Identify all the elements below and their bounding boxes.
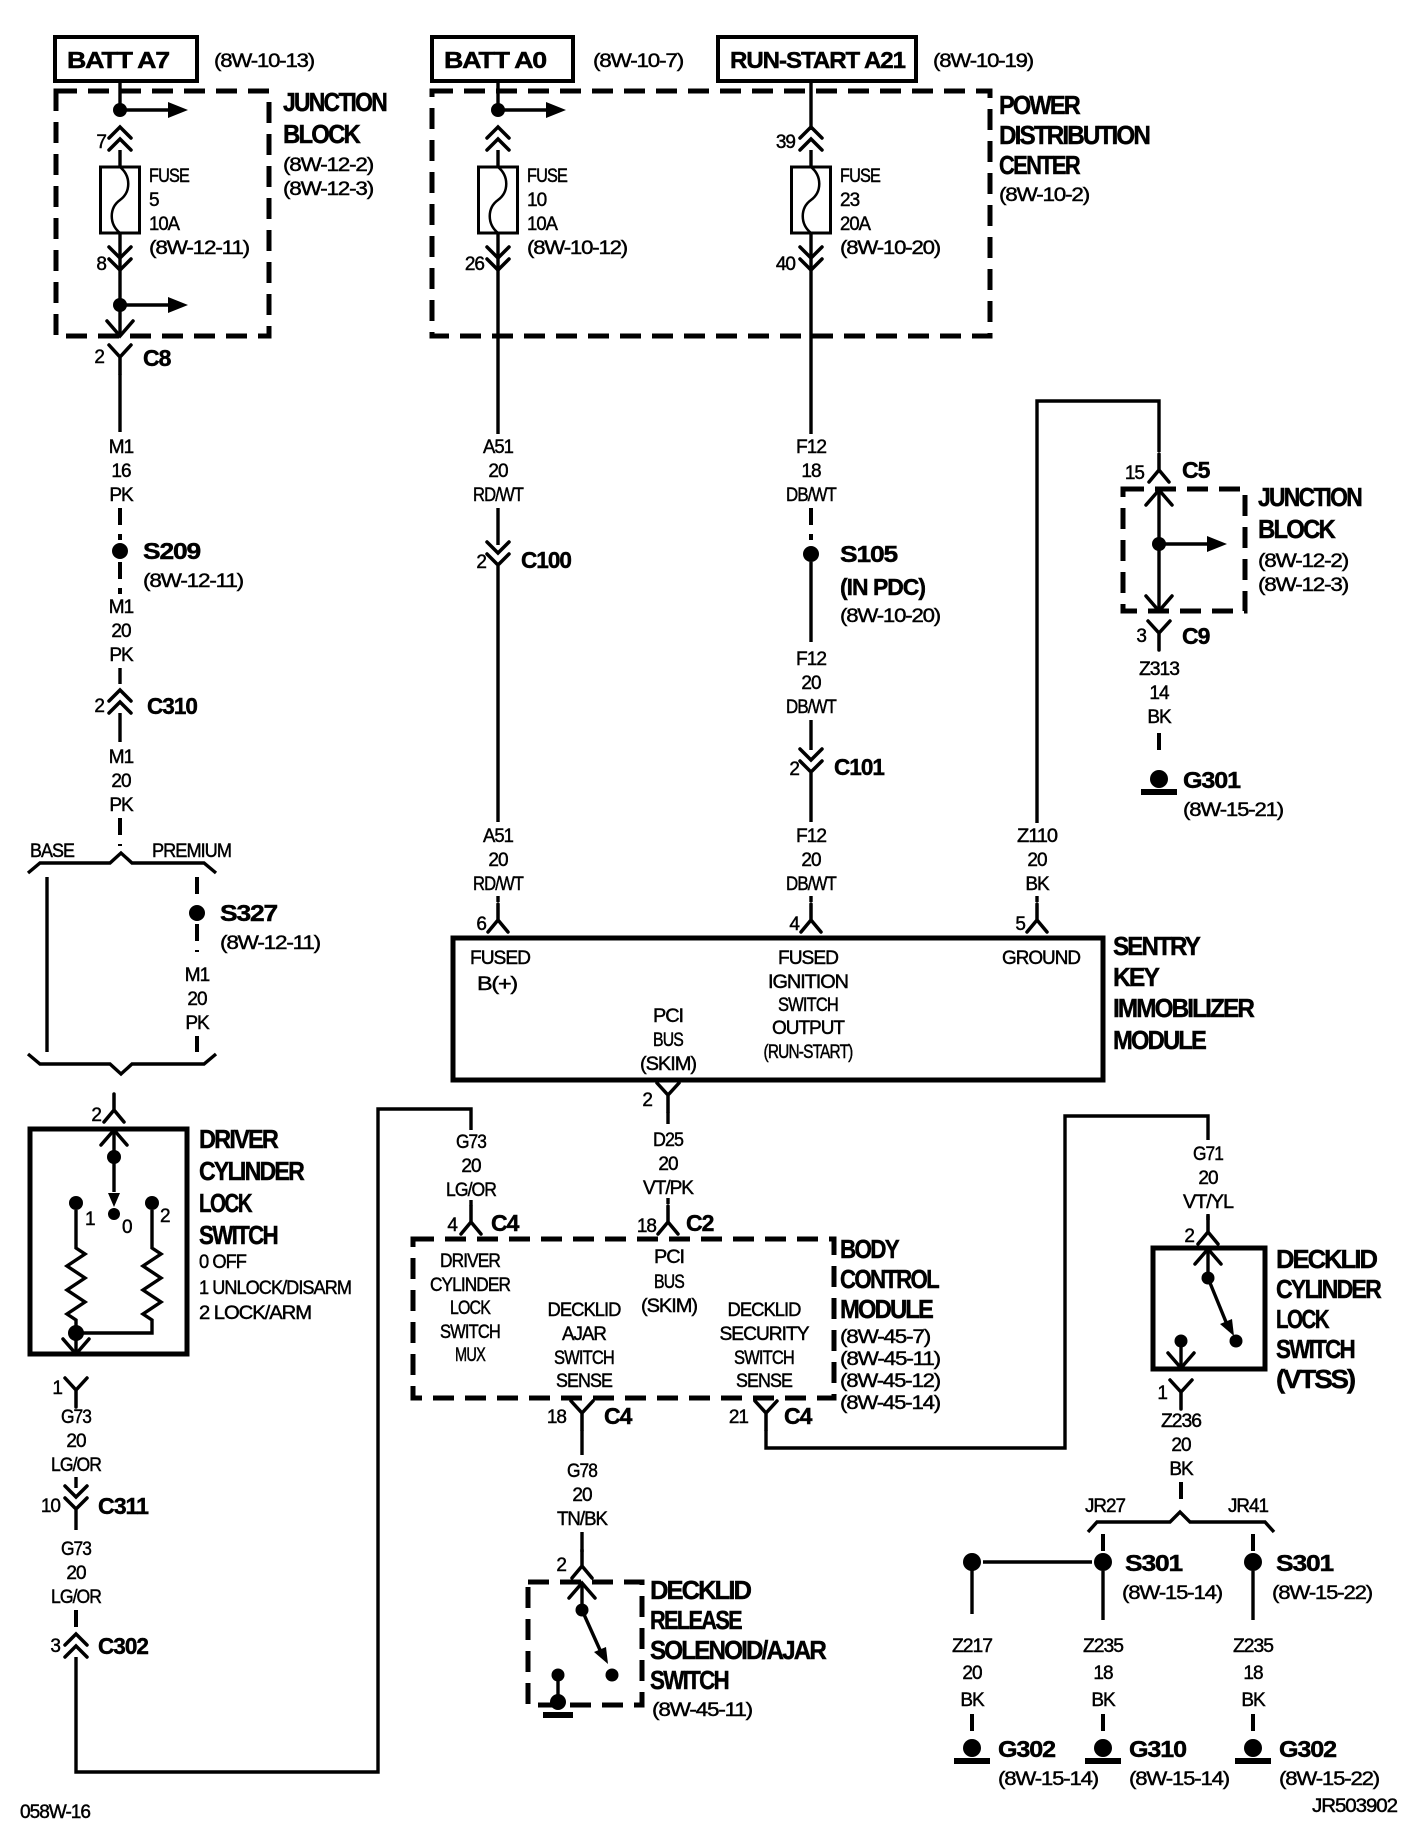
connector C4 pin 18 BCM bottom <box>547 1401 633 1430</box>
svg-text:CONTROL: CONTROL <box>840 1264 940 1294</box>
connector C5 pin 15 <box>1125 454 1211 484</box>
svg-text:S209: S209 <box>143 538 200 564</box>
switch wiper arrow to position 0 <box>108 1157 120 1207</box>
connector chevrons above fuse F10 <box>487 127 509 150</box>
resistor R2 lock <box>83 1210 161 1333</box>
svg-text:C311: C311 <box>98 1493 149 1519</box>
svg-text:4: 4 <box>789 914 800 935</box>
driver cylinder lock switch box <box>30 1129 187 1354</box>
wire label Z217 20 BK <box>952 1636 992 1711</box>
svg-text:DECKLID: DECKLID <box>650 1575 751 1605</box>
svg-text:Z110: Z110 <box>1017 826 1057 847</box>
svg-text:(SKIM): (SKIM) <box>640 1054 697 1075</box>
wire F12 fuse to PDC exit <box>809 233 812 434</box>
svg-text:DECKLID: DECKLID <box>1276 1244 1377 1274</box>
junction block JB2 dashed box <box>1123 489 1245 611</box>
wire to pin 6 <box>496 896 499 902</box>
wire contact to ground <box>556 1675 559 1698</box>
node position 1 <box>69 1196 95 1230</box>
wire to C310 <box>118 668 121 684</box>
connector C9 pin 3 <box>1136 621 1209 650</box>
node splice in JB1 bottom <box>113 298 127 312</box>
svg-text:(8W-15-14): (8W-15-14) <box>1122 1583 1223 1604</box>
switch blade VTSS <box>1208 1278 1234 1336</box>
svg-text:DB/WT: DB/WT <box>786 697 837 718</box>
svg-text:BATT A7: BATT A7 <box>67 47 169 73</box>
svg-text:(SKIM): (SKIM) <box>641 1296 698 1317</box>
svg-text:SWITCH: SWITCH <box>199 1220 278 1250</box>
decklid cylinder lock switch box <box>1153 1248 1265 1369</box>
svg-text:BUS: BUS <box>654 1272 684 1293</box>
svg-text:AJAR: AJAR <box>562 1324 606 1345</box>
svg-text:(RUN-START): (RUN-START) <box>764 1042 854 1063</box>
svg-text:S301: S301 <box>1125 1550 1183 1576</box>
wire Z217 down <box>970 1570 973 1614</box>
svg-text:0: 0 <box>122 1217 132 1238</box>
connector C4 pin 4 BCM <box>447 1206 519 1236</box>
svg-text:3: 3 <box>50 1636 60 1657</box>
wire label D25 20 VT/PK <box>643 1130 694 1199</box>
svg-text:F12: F12 <box>796 649 826 670</box>
node Z217 tap <box>963 1553 981 1571</box>
wire S105 down <box>809 562 812 642</box>
svg-text:(8W-12-2): (8W-12-2) <box>1258 551 1349 572</box>
splice S327 <box>189 900 321 954</box>
arrow switch entry <box>101 1130 127 1145</box>
svg-text:M1: M1 <box>185 965 210 986</box>
wire label Z313 14 BK <box>1139 659 1179 728</box>
svg-text:FUSE: FUSE <box>527 166 567 187</box>
sentry key immobilizer module box <box>453 938 1103 1080</box>
svg-text:7: 7 <box>96 132 106 153</box>
wire C101 to SKIM <box>809 773 812 822</box>
svg-text:10: 10 <box>41 1496 61 1517</box>
wire to VTSS pin 2 <box>1206 1214 1209 1220</box>
junction block JB1 title <box>283 87 387 200</box>
wire C310 down <box>118 713 121 742</box>
wire dashed S209 down <box>118 562 122 594</box>
svg-text:C4: C4 <box>604 1403 633 1429</box>
wire dashed stub to S301 right <box>1251 1534 1255 1552</box>
connector C4 pin 21 BCM bottom <box>729 1401 813 1430</box>
svg-text:D25: D25 <box>653 1130 683 1151</box>
wire BASE branch <box>45 877 48 1052</box>
terminal box RUN-START A21 <box>718 37 916 81</box>
svg-text:1: 1 <box>52 1378 62 1399</box>
svg-text:20A: 20A <box>840 214 871 235</box>
svg-text:1: 1 <box>1157 1383 1167 1404</box>
node splice in PDC left <box>491 103 505 117</box>
svg-text:LG/OR: LG/OR <box>51 1455 101 1476</box>
svg-text:PK: PK <box>109 645 134 666</box>
svg-text:SWITCH: SWITCH <box>1276 1334 1355 1364</box>
svg-text:LG/OR: LG/OR <box>446 1180 496 1201</box>
decklid release solenoid title <box>650 1575 827 1721</box>
connector pin 26 chevrons <box>465 247 509 275</box>
svg-text:(8W-15-14): (8W-15-14) <box>1129 1769 1230 1790</box>
svg-text:CYLINDER: CYLINDER <box>199 1156 305 1186</box>
svg-text:2: 2 <box>91 1105 101 1126</box>
svg-text:VT/PK: VT/PK <box>643 1178 694 1199</box>
svg-text:(8W-10-19): (8W-10-19) <box>933 51 1034 72</box>
svg-text:(8W-12-2): (8W-12-2) <box>283 155 374 176</box>
svg-text:JR27: JR27 <box>1085 1496 1125 1517</box>
wire to decklid release pin 2 <box>580 1532 583 1552</box>
resistor R1 unlock <box>67 1210 85 1330</box>
connector pin 7 chevrons <box>96 127 131 153</box>
svg-text:M1: M1 <box>109 747 134 768</box>
svg-text:14: 14 <box>1149 683 1170 704</box>
sentry key immobilizer module title <box>1113 931 1255 1055</box>
svg-text:(8W-12-11): (8W-12-11) <box>149 238 250 259</box>
ground G301 <box>1141 767 1284 821</box>
wire dashed to brace <box>118 818 122 846</box>
wire BATT A7 to splice <box>118 81 121 106</box>
node position 0 <box>108 1208 132 1238</box>
svg-text:1: 1 <box>85 1209 95 1230</box>
wire dashed Z235 to G310 <box>1101 1714 1105 1732</box>
connector pin 39 chevrons <box>776 127 822 153</box>
arrow decklid release entry <box>569 1583 595 1598</box>
svg-text:SWITCH: SWITCH <box>734 1348 794 1369</box>
svg-text:F12: F12 <box>796 826 826 847</box>
svg-text:G302: G302 <box>998 1736 1055 1762</box>
wire label G73 20 LG/OR upper <box>51 1407 101 1476</box>
svg-text:MODULE: MODULE <box>1113 1025 1207 1055</box>
svg-text:20: 20 <box>66 1431 86 1452</box>
svg-text:(8W-15-22): (8W-15-22) <box>1279 1769 1380 1790</box>
svg-text:(8W-12-11): (8W-12-11) <box>220 933 321 954</box>
svg-text:SECURITY: SECURITY <box>720 1324 810 1345</box>
svg-text:FUSE: FUSE <box>149 166 189 187</box>
svg-text:BATT A0: BATT A0 <box>444 47 546 73</box>
splice S301 JR41 <box>1244 1550 1373 1604</box>
wire D25 down <box>666 1112 669 1124</box>
connector C101 pin 2 <box>789 749 885 780</box>
driver cylinder lock switch title <box>199 1124 351 1324</box>
wire Z110 ground run <box>1037 401 1159 823</box>
svg-text:SWITCH: SWITCH <box>440 1322 500 1343</box>
svg-text:Z235: Z235 <box>1083 1636 1123 1657</box>
svg-text:20: 20 <box>488 850 508 871</box>
svg-text:16: 16 <box>111 461 131 482</box>
wire internal feed arrow PDC left <box>502 102 566 118</box>
arrow JB1 exit <box>107 321 133 336</box>
svg-text:SENSE: SENSE <box>556 1371 612 1392</box>
svg-text:IGNITION: IGNITION <box>768 972 848 993</box>
wire dashed S327 down <box>195 924 199 952</box>
svg-text:BLOCK: BLOCK <box>283 119 361 149</box>
svg-text:RD/WT: RD/WT <box>473 874 524 895</box>
svg-text:(8W-45-7): (8W-45-7) <box>840 1327 931 1348</box>
brace Z236 split JR27 JR41 <box>1088 1512 1274 1532</box>
wire internal feed arrow JB2 <box>1163 536 1227 552</box>
svg-text:Z235: Z235 <box>1233 1636 1273 1657</box>
svg-text:SENTRY: SENTRY <box>1113 931 1201 961</box>
svg-text:3: 3 <box>1136 626 1146 647</box>
wire label F12 18 DB/WT <box>786 437 837 506</box>
svg-text:S105: S105 <box>840 541 898 567</box>
svg-text:DISTRIBUTION: DISTRIBUTION <box>999 120 1150 150</box>
wire chevron to fuse F23 <box>809 150 812 167</box>
wire label G78 20 TN/BK <box>557 1461 608 1530</box>
svg-text:JR503902: JR503902 <box>1312 1796 1397 1817</box>
svg-text:BK: BK <box>1241 1690 1266 1711</box>
svg-text:JUNCTION: JUNCTION <box>283 87 387 117</box>
svg-text:SWITCH: SWITCH <box>554 1348 614 1369</box>
svg-text:BODY: BODY <box>840 1234 899 1264</box>
svg-text:SENSE: SENSE <box>736 1371 792 1392</box>
svg-text:2 LOCK/ARM: 2 LOCK/ARM <box>199 1303 311 1324</box>
connector C311 pin 10 <box>41 1486 149 1519</box>
svg-text:058W-16: 058W-16 <box>20 1802 90 1823</box>
wire dashed Z236 to brace <box>1179 1482 1183 1505</box>
svg-text:VT/YL: VT/YL <box>1183 1192 1233 1213</box>
pin 2 decklid release <box>556 1550 592 1578</box>
svg-text:PCI: PCI <box>653 1006 683 1027</box>
node position 2 <box>145 1196 170 1227</box>
wire splice to JB1 exit <box>118 305 121 334</box>
decklid cylinder lock switch title <box>1276 1244 1382 1394</box>
wire Z235 right down <box>1251 1571 1254 1620</box>
svg-text:20: 20 <box>962 1663 982 1684</box>
ground G310 <box>1085 1736 1230 1790</box>
svg-text:4: 4 <box>447 1215 458 1236</box>
wire A51 fuse to PDC exit <box>496 233 499 434</box>
wire dashed to G301 <box>1157 733 1161 757</box>
arrow switch exit <box>63 1339 89 1354</box>
wire internal feed arrow bottom JB1 <box>124 297 188 313</box>
brace BASE PREMIUM split <box>28 841 231 873</box>
pin label FUSED B(+) <box>470 948 530 995</box>
connector pin 8 chevrons <box>96 247 131 275</box>
wire dashed to S209 <box>118 508 122 540</box>
svg-text:KEY: KEY <box>1113 962 1160 992</box>
svg-text:C310: C310 <box>147 693 197 719</box>
pin 2 VTSS <box>1184 1216 1218 1247</box>
ground G302 left <box>954 1736 1099 1790</box>
wire to pin 4 <box>809 896 812 902</box>
svg-text:G73: G73 <box>61 1407 91 1428</box>
svg-text:JUNCTION: JUNCTION <box>1258 482 1362 512</box>
node VTSS output contact <box>1175 1335 1188 1348</box>
node VTSS contact <box>1230 1335 1243 1348</box>
svg-text:Z217: Z217 <box>952 1636 992 1657</box>
svg-text:Z313: Z313 <box>1139 659 1179 680</box>
svg-text:20: 20 <box>66 1563 86 1584</box>
svg-text:5: 5 <box>149 190 159 211</box>
wire C311 down <box>74 1510 77 1530</box>
svg-text:10A: 10A <box>527 214 558 235</box>
wire label Z110 20 BK <box>1017 826 1057 895</box>
svg-text:PCI: PCI <box>654 1247 684 1268</box>
svg-text:PK: PK <box>109 485 134 506</box>
wire fuse to lower splice <box>118 233 121 300</box>
wire chevron to fuse F10 <box>496 150 499 167</box>
wire to pin 5 <box>1035 896 1038 902</box>
svg-text:21: 21 <box>729 1407 749 1428</box>
wire dashed PREMIUM to S327 <box>195 877 199 900</box>
svg-text:SWITCH: SWITCH <box>650 1665 729 1695</box>
svg-text:G73: G73 <box>456 1132 486 1153</box>
ground ajar switch internal <box>543 1694 573 1718</box>
svg-text:(8W-12-3): (8W-12-3) <box>1258 575 1349 596</box>
body control module dashed box <box>413 1239 834 1398</box>
svg-text:PREMIUM: PREMIUM <box>152 841 231 862</box>
wire A51 to C100 <box>496 508 499 545</box>
svg-text:C4: C4 <box>784 1403 813 1429</box>
pin 2 SKIM PCI bus <box>642 1083 679 1112</box>
wire JB2 splice to exit <box>1157 544 1160 609</box>
svg-text:18: 18 <box>1093 1663 1113 1684</box>
wire label F12 20 DB/WT mid <box>786 649 837 718</box>
svg-text:B(+): B(+) <box>477 974 518 995</box>
svg-text:RUN-START A21: RUN-START A21 <box>730 47 906 73</box>
svg-text:40: 40 <box>776 254 796 275</box>
svg-text:G310: G310 <box>1129 1736 1186 1762</box>
wire C8 down <box>118 374 121 432</box>
wire internal feed arrow top JB1 <box>124 102 188 118</box>
svg-text:FUSED: FUSED <box>470 948 530 969</box>
splice S105 in PDC <box>803 541 941 627</box>
svg-text:DECKLID: DECKLID <box>728 1300 801 1321</box>
pin label PCI BUS (SKIM) <box>640 1006 697 1075</box>
node wiper top <box>107 1150 121 1164</box>
arrow VTSS exit <box>1168 1353 1194 1368</box>
svg-text:18: 18 <box>547 1407 567 1428</box>
svg-text:18: 18 <box>1243 1663 1263 1684</box>
power distribution center dashed box <box>432 91 990 336</box>
svg-text:DB/WT: DB/WT <box>786 874 837 895</box>
wire dashed Z217 to G302 <box>970 1714 974 1732</box>
svg-text:IMMOBILIZER: IMMOBILIZER <box>1113 993 1255 1023</box>
wire dashed stub to S301 left <box>1101 1534 1105 1552</box>
fuse F23 20A <box>792 166 941 259</box>
arrow VTSS entry <box>1195 1249 1221 1264</box>
svg-text:BLOCK: BLOCK <box>1258 514 1336 544</box>
svg-text:CENTER: CENTER <box>999 150 1081 180</box>
svg-text:0 OFF: 0 OFF <box>199 1252 246 1273</box>
wire label F12 20 DB/WT lower <box>786 826 837 895</box>
pin 4 SKIM <box>789 904 821 935</box>
node VTSS pivot <box>1202 1272 1215 1285</box>
svg-text:2: 2 <box>789 759 799 780</box>
svg-text:20: 20 <box>572 1485 592 1506</box>
svg-text:CYLINDER: CYLINDER <box>1276 1274 1382 1304</box>
wire entry to wiper dot <box>112 1130 115 1152</box>
svg-text:2: 2 <box>160 1206 170 1227</box>
wire VTSS contact to exit <box>1179 1341 1182 1366</box>
svg-text:2: 2 <box>1184 1226 1194 1247</box>
svg-text:M1: M1 <box>109 597 134 618</box>
svg-text:20: 20 <box>187 989 207 1010</box>
svg-text:PK: PK <box>185 1013 210 1034</box>
svg-text:CYLINDER: CYLINDER <box>430 1275 510 1296</box>
svg-text:20: 20 <box>111 621 131 642</box>
svg-text:G301: G301 <box>1183 767 1241 793</box>
wire label M1 20 PK <box>109 747 134 816</box>
svg-text:5: 5 <box>1015 914 1025 935</box>
svg-text:18: 18 <box>637 1216 657 1237</box>
wire long run C4-21 to VTSS <box>766 1116 1208 1448</box>
junction block JB2 title <box>1258 482 1362 596</box>
arrow JB2 entry <box>1146 490 1172 505</box>
svg-text:(8W-45-11): (8W-45-11) <box>652 1700 753 1721</box>
svg-text:C2: C2 <box>686 1210 714 1236</box>
svg-text:(8W-15-21): (8W-15-21) <box>1183 800 1284 821</box>
svg-text:OUTPUT: OUTPUT <box>772 1018 845 1039</box>
pin label DECKLID SECURITY SWITCH SENSE <box>720 1300 810 1392</box>
svg-text:20: 20 <box>1171 1435 1191 1456</box>
wire dashed Z235 right to G302 <box>1251 1714 1255 1732</box>
svg-text:20: 20 <box>488 461 508 482</box>
svg-text:POWER: POWER <box>999 90 1081 120</box>
wire label A51 20 RD/WT <box>473 437 524 506</box>
svg-text:20: 20 <box>111 771 131 792</box>
svg-text:23: 23 <box>840 190 860 211</box>
pin label DECKLID AJAR SWITCH SENSE <box>548 1300 621 1392</box>
wire RUN-START to chevron <box>809 81 812 130</box>
svg-text:(8W-10-13): (8W-10-13) <box>214 51 315 72</box>
wire label M1 16 PK <box>109 437 134 506</box>
node ajar switch pivot <box>576 1604 589 1617</box>
wire Z217 tap to S301 <box>983 1560 1092 1563</box>
wire chevron to fuse F5 <box>118 150 121 167</box>
svg-text:BK: BK <box>1025 874 1050 895</box>
connector pin 1 driver lock switch <box>52 1378 87 1407</box>
svg-text:C4: C4 <box>491 1210 520 1236</box>
svg-text:C101: C101 <box>834 754 885 780</box>
wire label M1 20 PK premium <box>185 965 210 1034</box>
svg-text:GROUND: GROUND <box>1002 948 1080 969</box>
wire entry to switch pivot <box>580 1583 583 1604</box>
wire label M1 20 PK <box>109 597 134 666</box>
svg-text:G71: G71 <box>1193 1144 1223 1165</box>
svg-text:C100: C100 <box>521 547 571 573</box>
svg-text:LOCK: LOCK <box>199 1188 253 1218</box>
svg-text:LG/OR: LG/OR <box>51 1587 101 1608</box>
pin 2 driver lock switch <box>91 1094 124 1126</box>
pin label DRIVER CYLINDER LOCK SWITCH MUX <box>430 1251 510 1366</box>
ground G302 right <box>1235 1736 1380 1790</box>
svg-text:20: 20 <box>801 673 821 694</box>
node splice in JB2 <box>1152 537 1166 551</box>
node splice in JB1 top <box>113 103 127 117</box>
connector C8 pin 2 <box>94 345 171 374</box>
fuse F5 10A <box>101 166 250 259</box>
pin 5 SKIM <box>1015 904 1047 935</box>
wire dash to C302 <box>74 1610 78 1628</box>
svg-text:RELEASE: RELEASE <box>650 1605 742 1635</box>
wire to C311 <box>74 1477 77 1488</box>
power distribution center title <box>999 90 1150 206</box>
svg-text:2: 2 <box>476 552 486 573</box>
terminal box BATT A0 <box>432 37 573 81</box>
wire to pin 18 C2 <box>666 1198 669 1204</box>
svg-text:(VTSS): (VTSS) <box>1276 1364 1355 1394</box>
svg-text:C5: C5 <box>1182 457 1211 483</box>
wire to C101 <box>809 720 812 750</box>
svg-text:39: 39 <box>776 132 796 153</box>
wire label A51 20 RD/WT lower <box>473 826 524 895</box>
svg-text:2: 2 <box>642 1090 652 1111</box>
svg-text:DECKLID: DECKLID <box>548 1300 621 1321</box>
svg-text:26: 26 <box>465 254 485 275</box>
svg-text:2: 2 <box>94 696 104 717</box>
terminal box BATT A7 <box>55 37 197 81</box>
wire to pin 4 C4 <box>469 1200 472 1206</box>
wire BATT A0 to splice <box>496 81 499 106</box>
